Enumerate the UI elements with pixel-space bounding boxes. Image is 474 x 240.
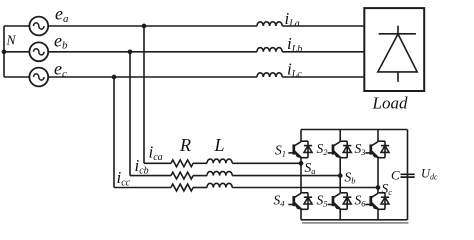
- row b wire: inductor to bridge leg: [232, 175, 340, 177]
- switch S5: emitter arrow head: [334, 203, 340, 209]
- svg-text:ica: ica: [149, 143, 163, 164]
- switch S6: diode cathode bar: [381, 196, 389, 198]
- switch S6: diode triangle: [381, 197, 389, 204]
- AC source e_b: [29, 42, 48, 61]
- row c wire: bend to resistor: [114, 187, 171, 189]
- switch S4: top connection jog: [300, 192, 308, 194]
- capacitor C plates: [401, 174, 415, 177]
- row a wire: bend to resistor: [144, 162, 171, 164]
- bridge bottom DC rail: [301, 219, 408, 221]
- switch S6: emitter stroke: [371, 204, 377, 209]
- scan shadow under bottom rail: [302, 222, 409, 224]
- wire bus to source c: [4, 76, 29, 78]
- junction on neutral bus: [2, 49, 7, 54]
- svg-text:S6: S6: [355, 193, 367, 209]
- switch S5: top connection jog: [340, 192, 348, 194]
- switch S6: top connection jog: [377, 192, 385, 194]
- load box: [364, 8, 424, 91]
- switch S6: bottom connection jog: [377, 208, 385, 210]
- switch S1: bottom connection jog: [300, 157, 308, 159]
- switch S4: emitter arrow head: [294, 203, 300, 209]
- line inductor phase a: [257, 22, 282, 26]
- switch S2: IGBT body bar: [332, 144, 335, 154]
- switch S1: collector stroke: [294, 142, 300, 146]
- switch S5: collector stroke: [334, 193, 340, 197]
- svg-text:eb: eb: [54, 31, 68, 52]
- row c wire: inductor to bridge leg: [232, 187, 378, 189]
- switch S5: gate lead: [328, 204, 333, 206]
- phase a wire: source to line inductor: [48, 25, 257, 27]
- svg-text:S3: S3: [355, 141, 366, 157]
- switch S3: anti-parallel diode branch wire: [384, 141, 386, 158]
- switch S4: bottom connection jog: [300, 208, 308, 210]
- bridge top DC rail: [301, 129, 408, 131]
- switch S6: gate lead: [365, 204, 370, 206]
- junction phase a tap: [142, 24, 147, 29]
- row b wire: resistor to inductor: [193, 175, 207, 177]
- switch S6: collector stroke: [371, 193, 377, 197]
- switch S4: IGBT body bar: [292, 196, 295, 206]
- svg-text:Load: Load: [372, 94, 408, 113]
- switch S2: gate lead: [328, 152, 333, 154]
- switch S3: collector stroke: [371, 142, 377, 146]
- switch S3: gate lead: [365, 152, 370, 154]
- leg b wire: top rail to upper switch: [339, 130, 341, 142]
- leg a wire: upper switch to lower switch: [300, 158, 302, 193]
- node S_c junction: [376, 185, 381, 190]
- load diode bottom lead: [397, 72, 399, 82]
- row b wire: bend to resistor: [130, 175, 171, 177]
- switch S3: bottom connection jog: [377, 157, 385, 159]
- switch S5: anti-parallel diode branch wire: [346, 193, 348, 210]
- switch S2: diode cathode bar: [343, 145, 351, 147]
- switch S4: diode triangle: [304, 197, 312, 204]
- switch S4: collector stroke: [294, 193, 300, 197]
- switch S3: top connection jog: [377, 140, 385, 142]
- drop wire phase b: [129, 52, 131, 176]
- switch S6: anti-parallel diode branch wire: [384, 193, 386, 210]
- switch S2: bottom connection jog: [340, 157, 348, 159]
- phase b wire: source to line inductor: [48, 51, 257, 53]
- wire bus to source a: [4, 25, 29, 27]
- dc link wire (right branch): [407, 130, 409, 220]
- switch S1: anti-parallel diode branch wire: [307, 141, 309, 158]
- switch S4: gate lead: [288, 204, 293, 206]
- leg b wire: upper switch to lower switch: [339, 158, 341, 193]
- switch S3: IGBT body bar: [369, 144, 372, 154]
- node S_a junction: [299, 161, 304, 166]
- switch S3: diode cathode bar: [381, 145, 389, 147]
- switch S6: IGBT body bar: [369, 196, 372, 206]
- load diode triangle: [378, 34, 417, 72]
- leg a wire: lower switch to bottom rail: [300, 209, 302, 220]
- phase b wire: inductor to load: [282, 51, 364, 53]
- drop wire phase a: [143, 26, 145, 163]
- leg a wire: top rail to upper switch: [300, 130, 302, 142]
- svg-text:ea: ea: [55, 4, 69, 25]
- switch S4: anti-parallel diode branch wire: [307, 193, 309, 210]
- switch S5: IGBT body bar: [332, 196, 335, 206]
- switch S2: emitter arrow head: [334, 151, 340, 157]
- svg-text:C: C: [391, 167, 400, 182]
- line inductor phase b: [257, 48, 282, 52]
- switch S1: diode cathode bar: [304, 145, 312, 147]
- svg-text:R: R: [179, 135, 191, 155]
- switch S1: IGBT body bar: [292, 144, 295, 154]
- switch S1: top connection jog: [300, 140, 308, 142]
- drop wire phase c: [113, 77, 115, 188]
- svg-text:S4: S4: [274, 193, 286, 209]
- leg c wire: lower switch to bottom rail: [377, 209, 379, 220]
- switch S4: diode cathode bar: [304, 196, 312, 198]
- switch S3: diode triangle: [381, 146, 389, 153]
- inductor L row a: [207, 159, 232, 163]
- switch S2: emitter stroke: [334, 152, 340, 157]
- switch S5: diode cathode bar: [343, 196, 351, 198]
- row c wire: resistor to inductor: [193, 187, 207, 189]
- node S_b junction: [338, 173, 343, 178]
- svg-text:N: N: [6, 32, 17, 47]
- line inductor phase c: [257, 73, 282, 77]
- phase c wire: source to line inductor: [48, 76, 257, 78]
- svg-text:Sc: Sc: [382, 181, 393, 197]
- inductor L row c: [207, 183, 232, 187]
- switch S2: diode triangle: [343, 146, 351, 153]
- switch S1: emitter stroke: [294, 152, 300, 157]
- phase a wire: inductor to load: [282, 25, 364, 27]
- svg-text:icb: icb: [135, 156, 149, 177]
- switch S2: top connection jog: [340, 140, 348, 142]
- switch S3: emitter arrow head: [371, 151, 377, 157]
- leg b wire: lower switch to bottom rail: [339, 209, 341, 220]
- junction phase c tap: [112, 75, 117, 80]
- AC source e_a: [29, 17, 48, 36]
- wire bus to source b: [4, 51, 29, 53]
- switch S1: emitter arrow head: [294, 151, 300, 157]
- load diode cathode bar: [379, 33, 416, 35]
- AC source e_c: [29, 68, 48, 87]
- inductor L row b: [207, 171, 232, 175]
- load diode top lead: [397, 26, 399, 34]
- svg-text:Sb: Sb: [345, 169, 356, 185]
- switch S2: collector stroke: [334, 142, 340, 146]
- svg-text:S2: S2: [317, 141, 329, 157]
- leg c wire: top rail to upper switch: [377, 130, 379, 142]
- phase c wire: inductor to load: [282, 76, 364, 78]
- neutral bus wire: [3, 26, 5, 77]
- leg c wire: upper switch to lower switch: [377, 158, 379, 193]
- svg-text:icc: icc: [117, 168, 131, 189]
- switch S2: anti-parallel diode branch wire: [346, 141, 348, 158]
- switch S5: emitter stroke: [334, 204, 340, 209]
- junction phase b tap: [128, 49, 133, 54]
- switch S6: emitter arrow head: [371, 203, 377, 209]
- resistor R row a: [171, 160, 193, 167]
- svg-text:Sa: Sa: [305, 160, 316, 176]
- switch S5: diode triangle: [343, 197, 351, 204]
- svg-text:S5: S5: [317, 193, 328, 209]
- resistor R row b: [171, 172, 193, 179]
- svg-text:L: L: [214, 135, 225, 155]
- row a wire: inductor to bridge leg: [232, 162, 301, 164]
- row a wire: resistor to inductor: [193, 162, 207, 164]
- svg-text:S1: S1: [275, 143, 286, 159]
- resistor R row c: [171, 184, 193, 191]
- switch S1: gate lead: [288, 152, 293, 154]
- switch S4: emitter stroke: [294, 204, 300, 209]
- svg-text:Udc: Udc: [421, 166, 438, 181]
- switch S3: emitter stroke: [371, 152, 377, 157]
- switch S5: bottom connection jog: [340, 208, 348, 210]
- switch S1: diode triangle: [304, 146, 312, 153]
